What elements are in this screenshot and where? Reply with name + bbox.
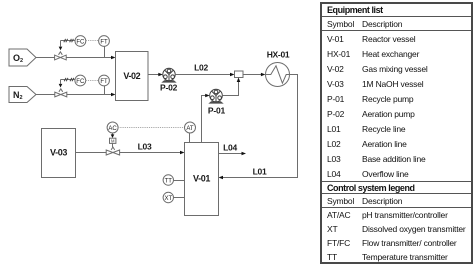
wire L01 HX-01 to V-01: [219, 75, 298, 180]
vessel V-03: [42, 129, 76, 178]
valve motor actuator M: [110, 138, 116, 147]
instrument TT: [163, 175, 173, 185]
svg-text:L02: L02: [194, 63, 208, 73]
wire P-01 discharge to junction: [222, 78, 240, 96]
instrument XT: [163, 192, 173, 202]
svg-text:V-03: V-03: [50, 148, 67, 158]
wire junction to HX-01: [243, 73, 265, 77]
svg-text:FT: FT: [100, 39, 108, 45]
wire V-03 to valve CV3: [76, 152, 107, 154]
instrument FC2: [75, 75, 86, 86]
svg-text:V-02: V-02: [123, 71, 140, 81]
control valve CV1 (O2 line): [55, 52, 67, 60]
wire V-02 to P-02: [148, 73, 163, 77]
wire V-01 to P-01 suction: [202, 94, 210, 143]
svg-text:HX-01: HX-01: [267, 50, 290, 60]
instrument AT: [185, 122, 196, 133]
heat exchanger HX-01: [266, 50, 290, 87]
wire L04 overflow: [219, 143, 247, 156]
svg-text:AC: AC: [108, 126, 117, 132]
wire AT tap to V-01: [189, 133, 191, 143]
wire FT1 tap to O2 line: [104, 46, 106, 57]
wire XT tap to V-01: [174, 197, 185, 199]
svg-text:P-01: P-01: [208, 106, 226, 116]
equipment list table: [320, 2, 473, 264]
source flag N2: [9, 87, 36, 103]
svg-text:FT: FT: [100, 79, 108, 85]
vessel V-01: [185, 143, 219, 216]
wire L03 valve CV3 to V-01: [120, 142, 185, 155]
svg-text:FC: FC: [76, 39, 85, 45]
signal wire FC1 to FT1: [86, 40, 99, 42]
wire valve CV2 to V-02: [67, 93, 116, 97]
svg-text:AT: AT: [186, 126, 194, 132]
svg-text:TT: TT: [165, 178, 173, 184]
svg-text:L03: L03: [138, 142, 152, 152]
wire N2 flag to valve: [36, 94, 55, 96]
svg-text:FC: FC: [76, 79, 85, 85]
control valve CV3 (L03 line): [106, 147, 119, 155]
wire FT2 tap to N2 line: [104, 86, 106, 95]
wire O2 flag to valve: [36, 57, 55, 59]
pump P-01: [208, 89, 226, 115]
instrument AC: [107, 122, 118, 133]
wire L02 pump P-02 to junction: [175, 63, 234, 77]
signal wire AC to AT: [118, 127, 184, 129]
instrument FT1: [99, 36, 110, 47]
wire valve CV1 to V-02: [66, 56, 115, 60]
signal wire AC to valve motor: [111, 133, 115, 138]
signal wire FC2 to FT2: [86, 80, 99, 82]
signal wire CV1 to FC1 (electric): [59, 39, 75, 50]
wire TT tap to V-01: [174, 180, 185, 182]
control valve CV2 (N2 line): [55, 89, 67, 97]
svg-text:XT: XT: [164, 196, 172, 202]
svg-text:L01: L01: [253, 167, 267, 177]
instrument FT2: [99, 75, 110, 86]
svg-text:V-01: V-01: [193, 174, 210, 184]
signal wire CV2 to FC2 (electric): [59, 78, 75, 88]
junction mixer box: [235, 71, 244, 78]
source flag O2: [9, 49, 36, 66]
svg-text:L04: L04: [223, 143, 237, 153]
vessel V-02: [116, 52, 149, 101]
svg-text:M: M: [111, 138, 115, 143]
instrument FC1: [75, 36, 86, 47]
pump P-02: [160, 68, 178, 92]
svg-text:P-02: P-02: [160, 83, 178, 93]
